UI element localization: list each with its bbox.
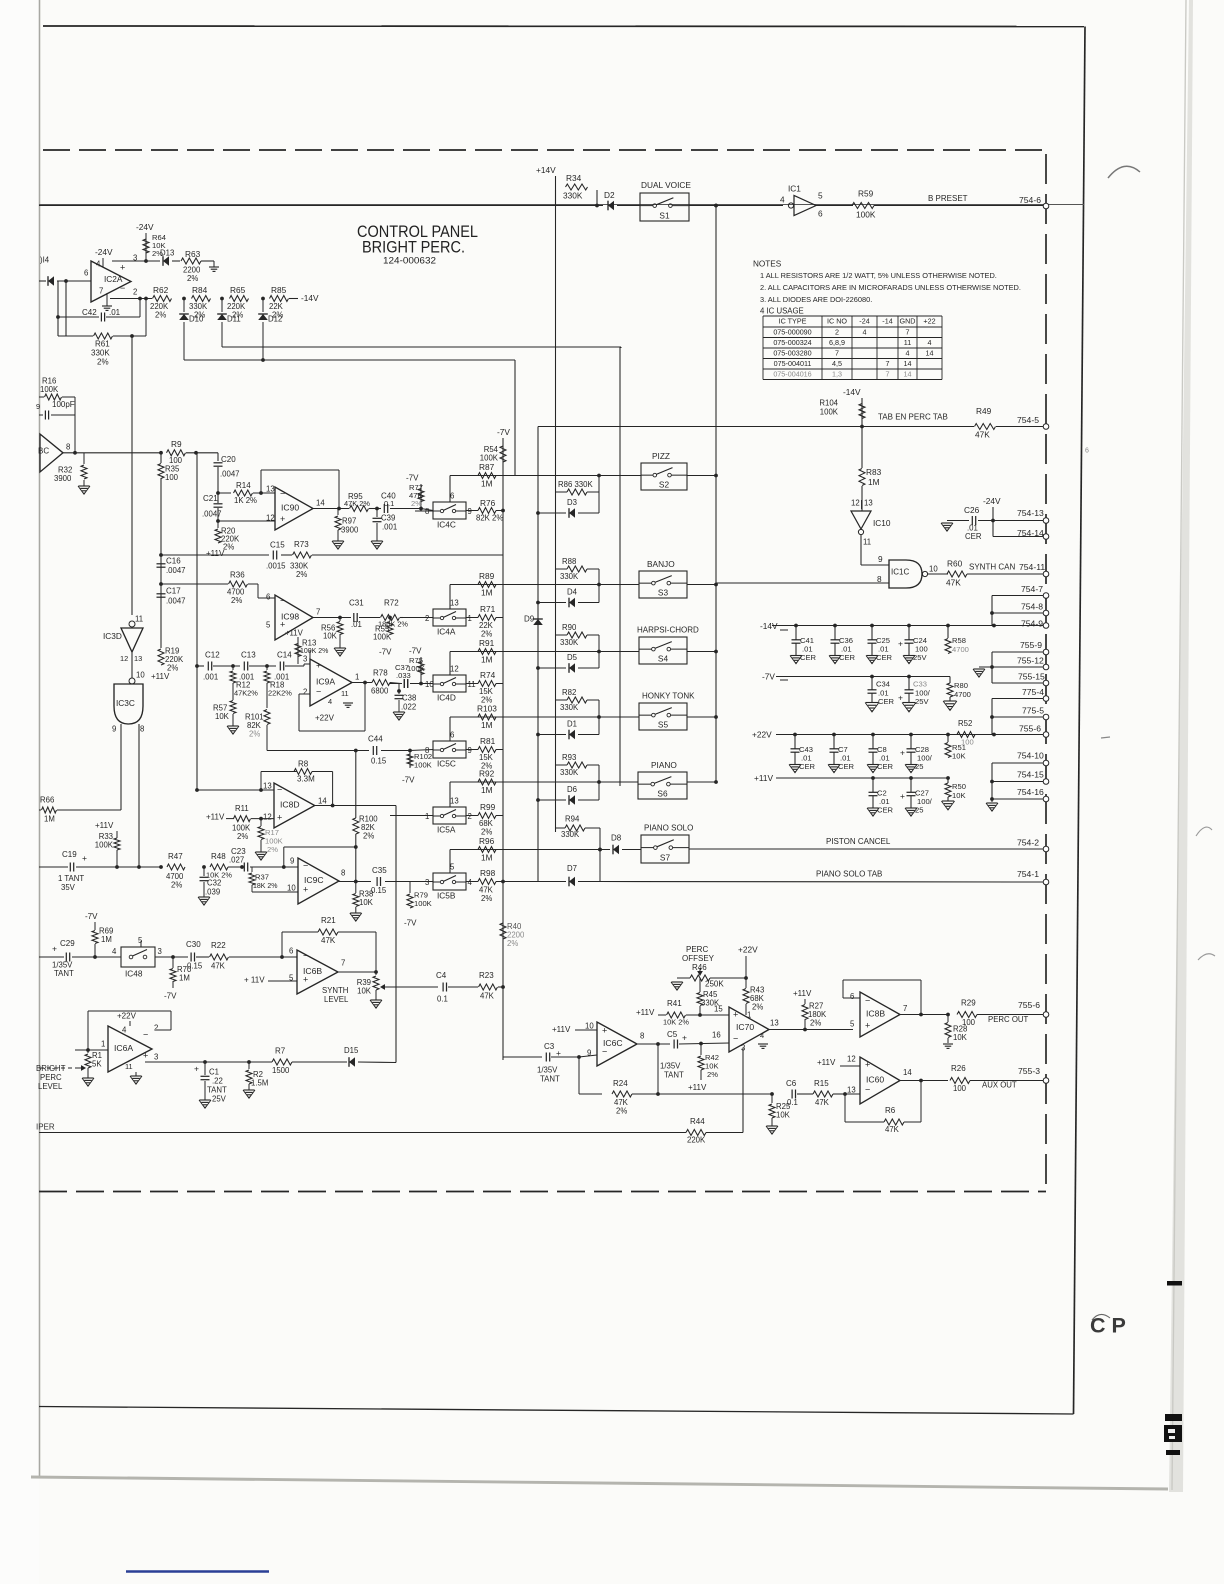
svg-text:754-10: 754-10 bbox=[1017, 751, 1044, 761]
svg-text:S5: S5 bbox=[658, 719, 669, 729]
svg-text:7: 7 bbox=[316, 607, 320, 616]
svg-text:HARPSI-CHORD: HARPSI-CHORD bbox=[637, 626, 699, 635]
svg-text:2%: 2% bbox=[616, 1106, 627, 1115]
svg-text:10K: 10K bbox=[953, 1033, 968, 1042]
svg-text:.01: .01 bbox=[109, 308, 121, 317]
svg-text:R99: R99 bbox=[480, 802, 496, 812]
svg-text:R104: R104 bbox=[819, 398, 838, 407]
svg-text:+: + bbox=[900, 791, 905, 801]
svg-text:7: 7 bbox=[886, 370, 890, 379]
svg-text:IC5A: IC5A bbox=[437, 824, 456, 834]
svg-text:2%: 2% bbox=[267, 845, 278, 854]
svg-text:R59: R59 bbox=[858, 188, 874, 198]
svg-text:−: − bbox=[865, 995, 870, 1005]
svg-text:NOTES: NOTES bbox=[753, 260, 782, 269]
svg-text:2%: 2% bbox=[167, 663, 178, 672]
svg-text:R85: R85 bbox=[271, 285, 287, 295]
svg-text:BC: BC bbox=[38, 447, 49, 456]
svg-text:+ 11V: + 11V bbox=[244, 976, 265, 985]
svg-text:2%: 2% bbox=[507, 939, 518, 948]
svg-text:1M: 1M bbox=[101, 935, 112, 944]
svg-text:330K: 330K bbox=[563, 190, 583, 200]
svg-text:IC10: IC10 bbox=[873, 518, 891, 528]
svg-text:47K 2%: 47K 2% bbox=[344, 499, 370, 508]
svg-text:+: + bbox=[143, 1050, 148, 1060]
svg-text:-7V: -7V bbox=[406, 474, 419, 483]
svg-text:C29: C29 bbox=[60, 939, 75, 948]
svg-text:IC NO: IC NO bbox=[827, 317, 847, 326]
svg-text:−: − bbox=[143, 1029, 148, 1039]
svg-text:-14: -14 bbox=[882, 317, 892, 326]
svg-text:47K: 47K bbox=[480, 991, 495, 1000]
svg-text:)I4: )I4 bbox=[40, 255, 50, 264]
svg-text:1M: 1M bbox=[481, 852, 493, 862]
svg-text:PERC: PERC bbox=[686, 945, 708, 954]
svg-text:R83: R83 bbox=[866, 467, 882, 477]
svg-text:C38: C38 bbox=[402, 693, 416, 702]
svg-text:D10: D10 bbox=[189, 314, 204, 323]
svg-text:R37: R37 bbox=[255, 873, 269, 882]
svg-text:22K2%: 22K2% bbox=[268, 689, 292, 698]
svg-text:GND: GND bbox=[900, 317, 916, 326]
svg-text:755-6: 755-6 bbox=[1018, 1000, 1040, 1010]
svg-text:7: 7 bbox=[886, 359, 890, 368]
svg-text:-7V: -7V bbox=[404, 919, 417, 928]
svg-text:7: 7 bbox=[99, 286, 103, 295]
svg-text:9: 9 bbox=[290, 856, 294, 865]
svg-text:8: 8 bbox=[877, 574, 882, 584]
svg-text:R47: R47 bbox=[168, 852, 183, 861]
svg-text:D5: D5 bbox=[567, 653, 578, 662]
svg-text:6800: 6800 bbox=[371, 686, 389, 695]
svg-text:100K: 100K bbox=[414, 761, 432, 770]
svg-text:R89: R89 bbox=[479, 571, 495, 581]
svg-text:R15: R15 bbox=[814, 1079, 829, 1088]
svg-text:R94: R94 bbox=[565, 814, 580, 823]
svg-text:+: + bbox=[52, 944, 57, 954]
svg-text:+22V: +22V bbox=[315, 714, 335, 723]
svg-text:PIANO SOLO: PIANO SOLO bbox=[644, 824, 693, 833]
svg-text:100: 100 bbox=[953, 1084, 967, 1093]
svg-text:6: 6 bbox=[1085, 448, 1089, 455]
svg-text:−: − bbox=[280, 488, 285, 498]
svg-text:2: 2 bbox=[133, 287, 137, 296]
svg-text:CER: CER bbox=[965, 532, 982, 541]
svg-text:14: 14 bbox=[318, 796, 327, 805]
svg-text:4: 4 bbox=[906, 349, 910, 358]
svg-text:CER: CER bbox=[877, 806, 894, 815]
svg-text:100K: 100K bbox=[40, 385, 59, 394]
svg-text:11: 11 bbox=[468, 680, 476, 689]
svg-text:0.15: 0.15 bbox=[371, 886, 387, 895]
svg-text:2%: 2% bbox=[97, 358, 109, 367]
svg-text:R36: R36 bbox=[230, 571, 245, 580]
svg-text:C31: C31 bbox=[349, 599, 364, 608]
svg-text:R65: R65 bbox=[230, 285, 246, 295]
svg-text:IC90: IC90 bbox=[281, 502, 299, 512]
svg-text:2: 2 bbox=[154, 1023, 158, 1032]
svg-text:-24V: -24V bbox=[136, 222, 154, 232]
svg-text:330K: 330K bbox=[560, 572, 579, 581]
svg-text:754-13: 754-13 bbox=[1017, 508, 1044, 518]
svg-text:-7V: -7V bbox=[497, 427, 510, 437]
svg-text:C5: C5 bbox=[667, 1030, 678, 1039]
svg-text:13: 13 bbox=[263, 781, 272, 790]
svg-text:13: 13 bbox=[266, 484, 275, 493]
svg-text:4: 4 bbox=[112, 947, 117, 956]
svg-text:100pF: 100pF bbox=[52, 400, 75, 409]
svg-text:82K 2%: 82K 2% bbox=[476, 513, 503, 522]
svg-text:+: + bbox=[82, 853, 87, 863]
svg-text:C34: C34 bbox=[876, 680, 890, 689]
svg-text:+22V: +22V bbox=[752, 729, 772, 739]
svg-text:3: 3 bbox=[303, 654, 307, 663]
svg-text:1/35V: 1/35V bbox=[660, 1061, 681, 1070]
svg-text:10K: 10K bbox=[359, 898, 374, 907]
svg-text:12: 12 bbox=[450, 665, 459, 674]
svg-text:IC5C: IC5C bbox=[437, 758, 456, 768]
svg-text:8: 8 bbox=[140, 724, 144, 733]
svg-text:47K: 47K bbox=[321, 936, 336, 945]
svg-text:4,5: 4,5 bbox=[832, 359, 842, 368]
svg-text:2%: 2% bbox=[223, 542, 234, 551]
svg-text:2. ALL CAPACITORS ARE IN MICRO: 2. ALL CAPACITORS ARE IN MICROFARADS UNL… bbox=[760, 283, 1021, 292]
svg-text:.001: .001 bbox=[203, 672, 218, 681]
svg-text:PIANO: PIANO bbox=[651, 760, 677, 770]
svg-text:1: 1 bbox=[355, 672, 359, 681]
svg-text:R23: R23 bbox=[479, 971, 494, 980]
svg-text:6,8,9: 6,8,9 bbox=[829, 338, 845, 347]
svg-text:0.1: 0.1 bbox=[437, 994, 448, 1003]
svg-text:IC60: IC60 bbox=[866, 1074, 884, 1084]
svg-text:+11V: +11V bbox=[206, 813, 225, 822]
svg-text:14: 14 bbox=[904, 370, 912, 379]
svg-text:C12: C12 bbox=[205, 651, 220, 660]
svg-text:HONKY TONK: HONKY TONK bbox=[642, 692, 695, 701]
svg-text:13: 13 bbox=[864, 498, 873, 507]
svg-text:R74: R74 bbox=[480, 670, 496, 680]
svg-text:9: 9 bbox=[468, 507, 472, 516]
svg-text:D2: D2 bbox=[604, 190, 615, 200]
svg-text:+14V: +14V bbox=[536, 165, 556, 175]
svg-text:0.1: 0.1 bbox=[384, 499, 394, 508]
svg-text:075-000090: 075-000090 bbox=[773, 328, 811, 337]
svg-text:+11V: +11V bbox=[552, 1025, 571, 1034]
svg-text:R61: R61 bbox=[95, 340, 110, 349]
svg-text:2%: 2% bbox=[231, 596, 242, 605]
svg-text:25V: 25V bbox=[212, 1094, 227, 1103]
svg-text:1: 1 bbox=[747, 1010, 751, 1019]
svg-text:B PRESET: B PRESET bbox=[928, 194, 968, 203]
svg-text:9: 9 bbox=[36, 402, 40, 411]
svg-text:C32: C32 bbox=[207, 878, 221, 887]
svg-text:10K: 10K bbox=[952, 791, 966, 800]
svg-text:+: + bbox=[277, 812, 282, 822]
svg-text:C6: C6 bbox=[786, 1079, 797, 1088]
svg-text:R13: R13 bbox=[302, 638, 316, 647]
svg-text:3: 3 bbox=[425, 878, 429, 887]
svg-text:2%: 2% bbox=[752, 1002, 763, 1011]
svg-text:S2: S2 bbox=[659, 479, 670, 489]
svg-text:14: 14 bbox=[904, 359, 912, 368]
svg-text:47K: 47K bbox=[946, 577, 961, 587]
svg-text:+: + bbox=[602, 1025, 607, 1035]
svg-text:5: 5 bbox=[450, 863, 455, 872]
svg-text:13: 13 bbox=[847, 1085, 856, 1094]
svg-text:15: 15 bbox=[714, 1004, 723, 1013]
svg-text:C33: C33 bbox=[913, 680, 927, 689]
svg-text:R11: R11 bbox=[235, 804, 249, 813]
svg-text:-14V: -14V bbox=[843, 387, 861, 397]
svg-text:R21: R21 bbox=[321, 916, 336, 925]
svg-text:755-12: 755-12 bbox=[1017, 656, 1044, 666]
svg-text:9: 9 bbox=[878, 554, 883, 564]
svg-text:-24V: -24V bbox=[983, 496, 1001, 506]
svg-text:+: + bbox=[865, 1020, 870, 1030]
svg-text:6: 6 bbox=[818, 208, 823, 218]
svg-text:−: − bbox=[602, 1046, 607, 1056]
svg-text:-24: -24 bbox=[859, 317, 869, 326]
svg-text:6: 6 bbox=[450, 731, 454, 740]
svg-text:.22: .22 bbox=[212, 1076, 223, 1085]
svg-text:+: + bbox=[303, 974, 308, 984]
svg-text:754-16: 754-16 bbox=[1017, 787, 1044, 797]
svg-text:+: + bbox=[316, 660, 321, 670]
svg-text:+: + bbox=[280, 514, 285, 524]
svg-text:075-004016: 075-004016 bbox=[773, 370, 811, 379]
svg-text:R63: R63 bbox=[185, 249, 201, 259]
svg-text:2: 2 bbox=[303, 687, 307, 696]
svg-text:+22: +22 bbox=[923, 317, 935, 326]
svg-text:10K: 10K bbox=[776, 1110, 791, 1119]
svg-text:CER: CER bbox=[877, 762, 894, 771]
svg-text:-7V: -7V bbox=[85, 912, 98, 921]
svg-text:075-004011: 075-004011 bbox=[774, 359, 812, 368]
svg-text:1M: 1M bbox=[481, 785, 493, 795]
svg-text:D4: D4 bbox=[567, 587, 578, 596]
svg-text:CER: CER bbox=[800, 653, 817, 662]
svg-text:IC48: IC48 bbox=[125, 968, 143, 978]
svg-text:7: 7 bbox=[341, 958, 345, 967]
svg-text:2: 2 bbox=[425, 614, 429, 623]
svg-text:1M: 1M bbox=[868, 477, 880, 487]
svg-text:TANT: TANT bbox=[207, 1085, 227, 1094]
svg-text:12: 12 bbox=[263, 812, 272, 821]
svg-text:R96: R96 bbox=[479, 836, 495, 846]
svg-text:D12: D12 bbox=[268, 314, 282, 323]
svg-text:R9: R9 bbox=[171, 439, 182, 449]
svg-text:754-11: 754-11 bbox=[1019, 562, 1045, 572]
svg-text:D13: D13 bbox=[160, 248, 174, 257]
svg-text:8: 8 bbox=[341, 868, 345, 877]
svg-text:R73: R73 bbox=[294, 540, 309, 549]
svg-text:1/35V: 1/35V bbox=[537, 1065, 558, 1074]
svg-text:+: + bbox=[900, 748, 905, 758]
svg-text:7: 7 bbox=[906, 328, 910, 337]
svg-text:+: + bbox=[303, 884, 308, 894]
svg-text:2%: 2% bbox=[237, 832, 248, 841]
svg-text:5: 5 bbox=[850, 1019, 855, 1028]
svg-text:C30: C30 bbox=[186, 940, 201, 949]
svg-text:CER: CER bbox=[838, 762, 855, 771]
svg-text:D3: D3 bbox=[567, 498, 577, 507]
svg-text:+: + bbox=[865, 1059, 870, 1069]
svg-text:AUX OUT: AUX OUT bbox=[982, 1080, 1017, 1089]
svg-text:+: + bbox=[733, 1009, 738, 1019]
svg-text:.0047: .0047 bbox=[166, 596, 186, 605]
svg-text:2: 2 bbox=[835, 328, 839, 337]
svg-text:.027: .027 bbox=[229, 855, 244, 864]
svg-text:754-6: 754-6 bbox=[1019, 195, 1041, 205]
svg-text:4700: 4700 bbox=[954, 690, 971, 699]
svg-text:D9: D9 bbox=[524, 615, 535, 624]
svg-text:PIANO SOLO TAB: PIANO SOLO TAB bbox=[816, 870, 882, 879]
svg-text:754-8: 754-8 bbox=[1021, 602, 1043, 612]
svg-text:1M: 1M bbox=[481, 587, 493, 597]
svg-text:D11: D11 bbox=[227, 314, 241, 323]
svg-text:BRIGHT: BRIGHT bbox=[36, 1064, 66, 1073]
svg-text:1: 1 bbox=[101, 1039, 105, 1048]
svg-text:13: 13 bbox=[450, 599, 459, 608]
svg-text:10: 10 bbox=[585, 1021, 594, 1030]
svg-text:SYNTH CAN: SYNTH CAN bbox=[969, 563, 1015, 572]
svg-text:3.3M: 3.3M bbox=[297, 775, 315, 784]
svg-text:2%: 2% bbox=[155, 310, 166, 319]
svg-text:.0047: .0047 bbox=[166, 566, 186, 575]
svg-text:220K: 220K bbox=[687, 1135, 706, 1144]
svg-text:13: 13 bbox=[450, 797, 459, 806]
svg-text:1: 1 bbox=[425, 812, 429, 821]
svg-text:R72: R72 bbox=[384, 599, 399, 608]
svg-text:R14: R14 bbox=[236, 481, 251, 490]
svg-text:075-000324: 075-000324 bbox=[773, 338, 811, 347]
svg-text:4: 4 bbox=[780, 194, 785, 204]
svg-text:S3: S3 bbox=[658, 587, 669, 597]
svg-text:1M: 1M bbox=[179, 973, 190, 982]
svg-text:.001: .001 bbox=[382, 522, 397, 531]
svg-text:C1: C1 bbox=[209, 1067, 219, 1076]
svg-text:BRIGHT PERC.: BRIGHT PERC. bbox=[362, 239, 465, 257]
svg-text:250K: 250K bbox=[705, 980, 724, 989]
svg-text:R88: R88 bbox=[562, 557, 576, 566]
svg-text:1M: 1M bbox=[481, 720, 493, 730]
svg-text:+11V: +11V bbox=[817, 1058, 836, 1067]
svg-text:DUAL VOICE: DUAL VOICE bbox=[641, 180, 691, 190]
svg-text:4 IC USAGE: 4 IC USAGE bbox=[760, 306, 804, 315]
svg-text:6: 6 bbox=[84, 268, 88, 277]
svg-text:9: 9 bbox=[587, 1048, 591, 1057]
svg-text:C35: C35 bbox=[372, 866, 387, 875]
svg-text:R82: R82 bbox=[562, 688, 576, 697]
svg-text:8: 8 bbox=[66, 442, 70, 451]
svg-text:IC6A: IC6A bbox=[114, 1043, 133, 1053]
svg-text:12: 12 bbox=[120, 654, 128, 663]
svg-text:R22: R22 bbox=[211, 941, 226, 950]
svg-text:16: 16 bbox=[712, 1030, 721, 1039]
svg-text:754-7: 754-7 bbox=[1021, 584, 1043, 594]
svg-text:100: 100 bbox=[961, 738, 974, 747]
svg-text:330K: 330K bbox=[560, 638, 579, 647]
svg-text:2%: 2% bbox=[810, 1018, 821, 1027]
svg-text:TANT: TANT bbox=[664, 1070, 684, 1079]
svg-text:S6: S6 bbox=[657, 788, 668, 798]
svg-text:8: 8 bbox=[640, 1031, 644, 1040]
svg-text:10: 10 bbox=[287, 883, 296, 892]
svg-text:IC9C: IC9C bbox=[304, 875, 324, 885]
svg-text:C16: C16 bbox=[166, 557, 181, 566]
svg-text:C26: C26 bbox=[964, 505, 980, 515]
svg-text:2%: 2% bbox=[187, 274, 198, 283]
svg-text:3: 3 bbox=[154, 1052, 158, 1061]
svg-text:−: − bbox=[303, 950, 308, 960]
svg-text:+: + bbox=[898, 639, 903, 649]
svg-text:100K: 100K bbox=[856, 209, 876, 219]
svg-text:R24: R24 bbox=[613, 1079, 628, 1088]
svg-text:330K: 330K bbox=[560, 703, 579, 712]
svg-text:18K 2%: 18K 2% bbox=[253, 883, 278, 890]
svg-text:R78: R78 bbox=[373, 669, 388, 678]
svg-text:11: 11 bbox=[904, 338, 911, 347]
svg-text:4: 4 bbox=[328, 697, 332, 706]
svg-text:3. ALL DIODES ARE DOI-226080.: 3. ALL DIODES ARE DOI-226080. bbox=[760, 295, 872, 304]
svg-text:2%: 2% bbox=[363, 831, 374, 840]
svg-text:12: 12 bbox=[266, 513, 275, 522]
svg-text:12: 12 bbox=[847, 1054, 856, 1063]
svg-text:-14V: -14V bbox=[301, 293, 319, 303]
svg-text:.033: .033 bbox=[396, 671, 411, 680]
svg-text:13: 13 bbox=[134, 654, 142, 663]
svg-text:+11V: +11V bbox=[793, 989, 812, 998]
svg-text:C17: C17 bbox=[166, 587, 181, 596]
svg-text:C20: C20 bbox=[221, 455, 236, 464]
svg-text:2%: 2% bbox=[171, 880, 182, 889]
svg-text:7: 7 bbox=[835, 349, 839, 358]
svg-text:IC8B: IC8B bbox=[866, 1008, 885, 1018]
svg-text:1,3: 1,3 bbox=[832, 370, 842, 379]
svg-text:.0047: .0047 bbox=[202, 509, 222, 518]
svg-text:11: 11 bbox=[135, 614, 143, 623]
svg-text:.039: .039 bbox=[205, 887, 220, 896]
svg-text:R86 330K: R86 330K bbox=[558, 480, 593, 489]
svg-text:.022: .022 bbox=[401, 702, 416, 711]
svg-text:R76: R76 bbox=[480, 498, 496, 508]
svg-text:10K: 10K bbox=[357, 986, 372, 995]
svg-text:1 TANT: 1 TANT bbox=[58, 874, 84, 883]
svg-text:25V: 25V bbox=[915, 697, 929, 706]
svg-text:C21: C21 bbox=[203, 494, 218, 503]
svg-text:−: − bbox=[316, 686, 321, 696]
svg-text:10K 2%: 10K 2% bbox=[663, 1018, 689, 1027]
svg-text:R29: R29 bbox=[961, 999, 976, 1008]
svg-text:IPER: IPER bbox=[36, 1123, 55, 1132]
svg-text:0.15: 0.15 bbox=[187, 961, 203, 970]
svg-text:4: 4 bbox=[863, 328, 867, 337]
svg-text:25: 25 bbox=[915, 806, 923, 815]
svg-text:R103: R103 bbox=[477, 703, 497, 713]
svg-text:TANT: TANT bbox=[54, 969, 74, 978]
svg-text:6: 6 bbox=[850, 992, 854, 1001]
svg-text:R52: R52 bbox=[958, 719, 972, 728]
svg-text:+: + bbox=[120, 262, 125, 272]
svg-text:330K: 330K bbox=[560, 768, 579, 777]
svg-text:1.5M: 1.5M bbox=[251, 1078, 268, 1087]
svg-text:5: 5 bbox=[266, 620, 271, 629]
svg-text:C42: C42 bbox=[82, 308, 97, 317]
svg-text:100: 100 bbox=[165, 473, 179, 482]
svg-text:9: 9 bbox=[468, 746, 472, 755]
svg-text:10: 10 bbox=[929, 564, 938, 573]
svg-text:6: 6 bbox=[266, 592, 270, 601]
